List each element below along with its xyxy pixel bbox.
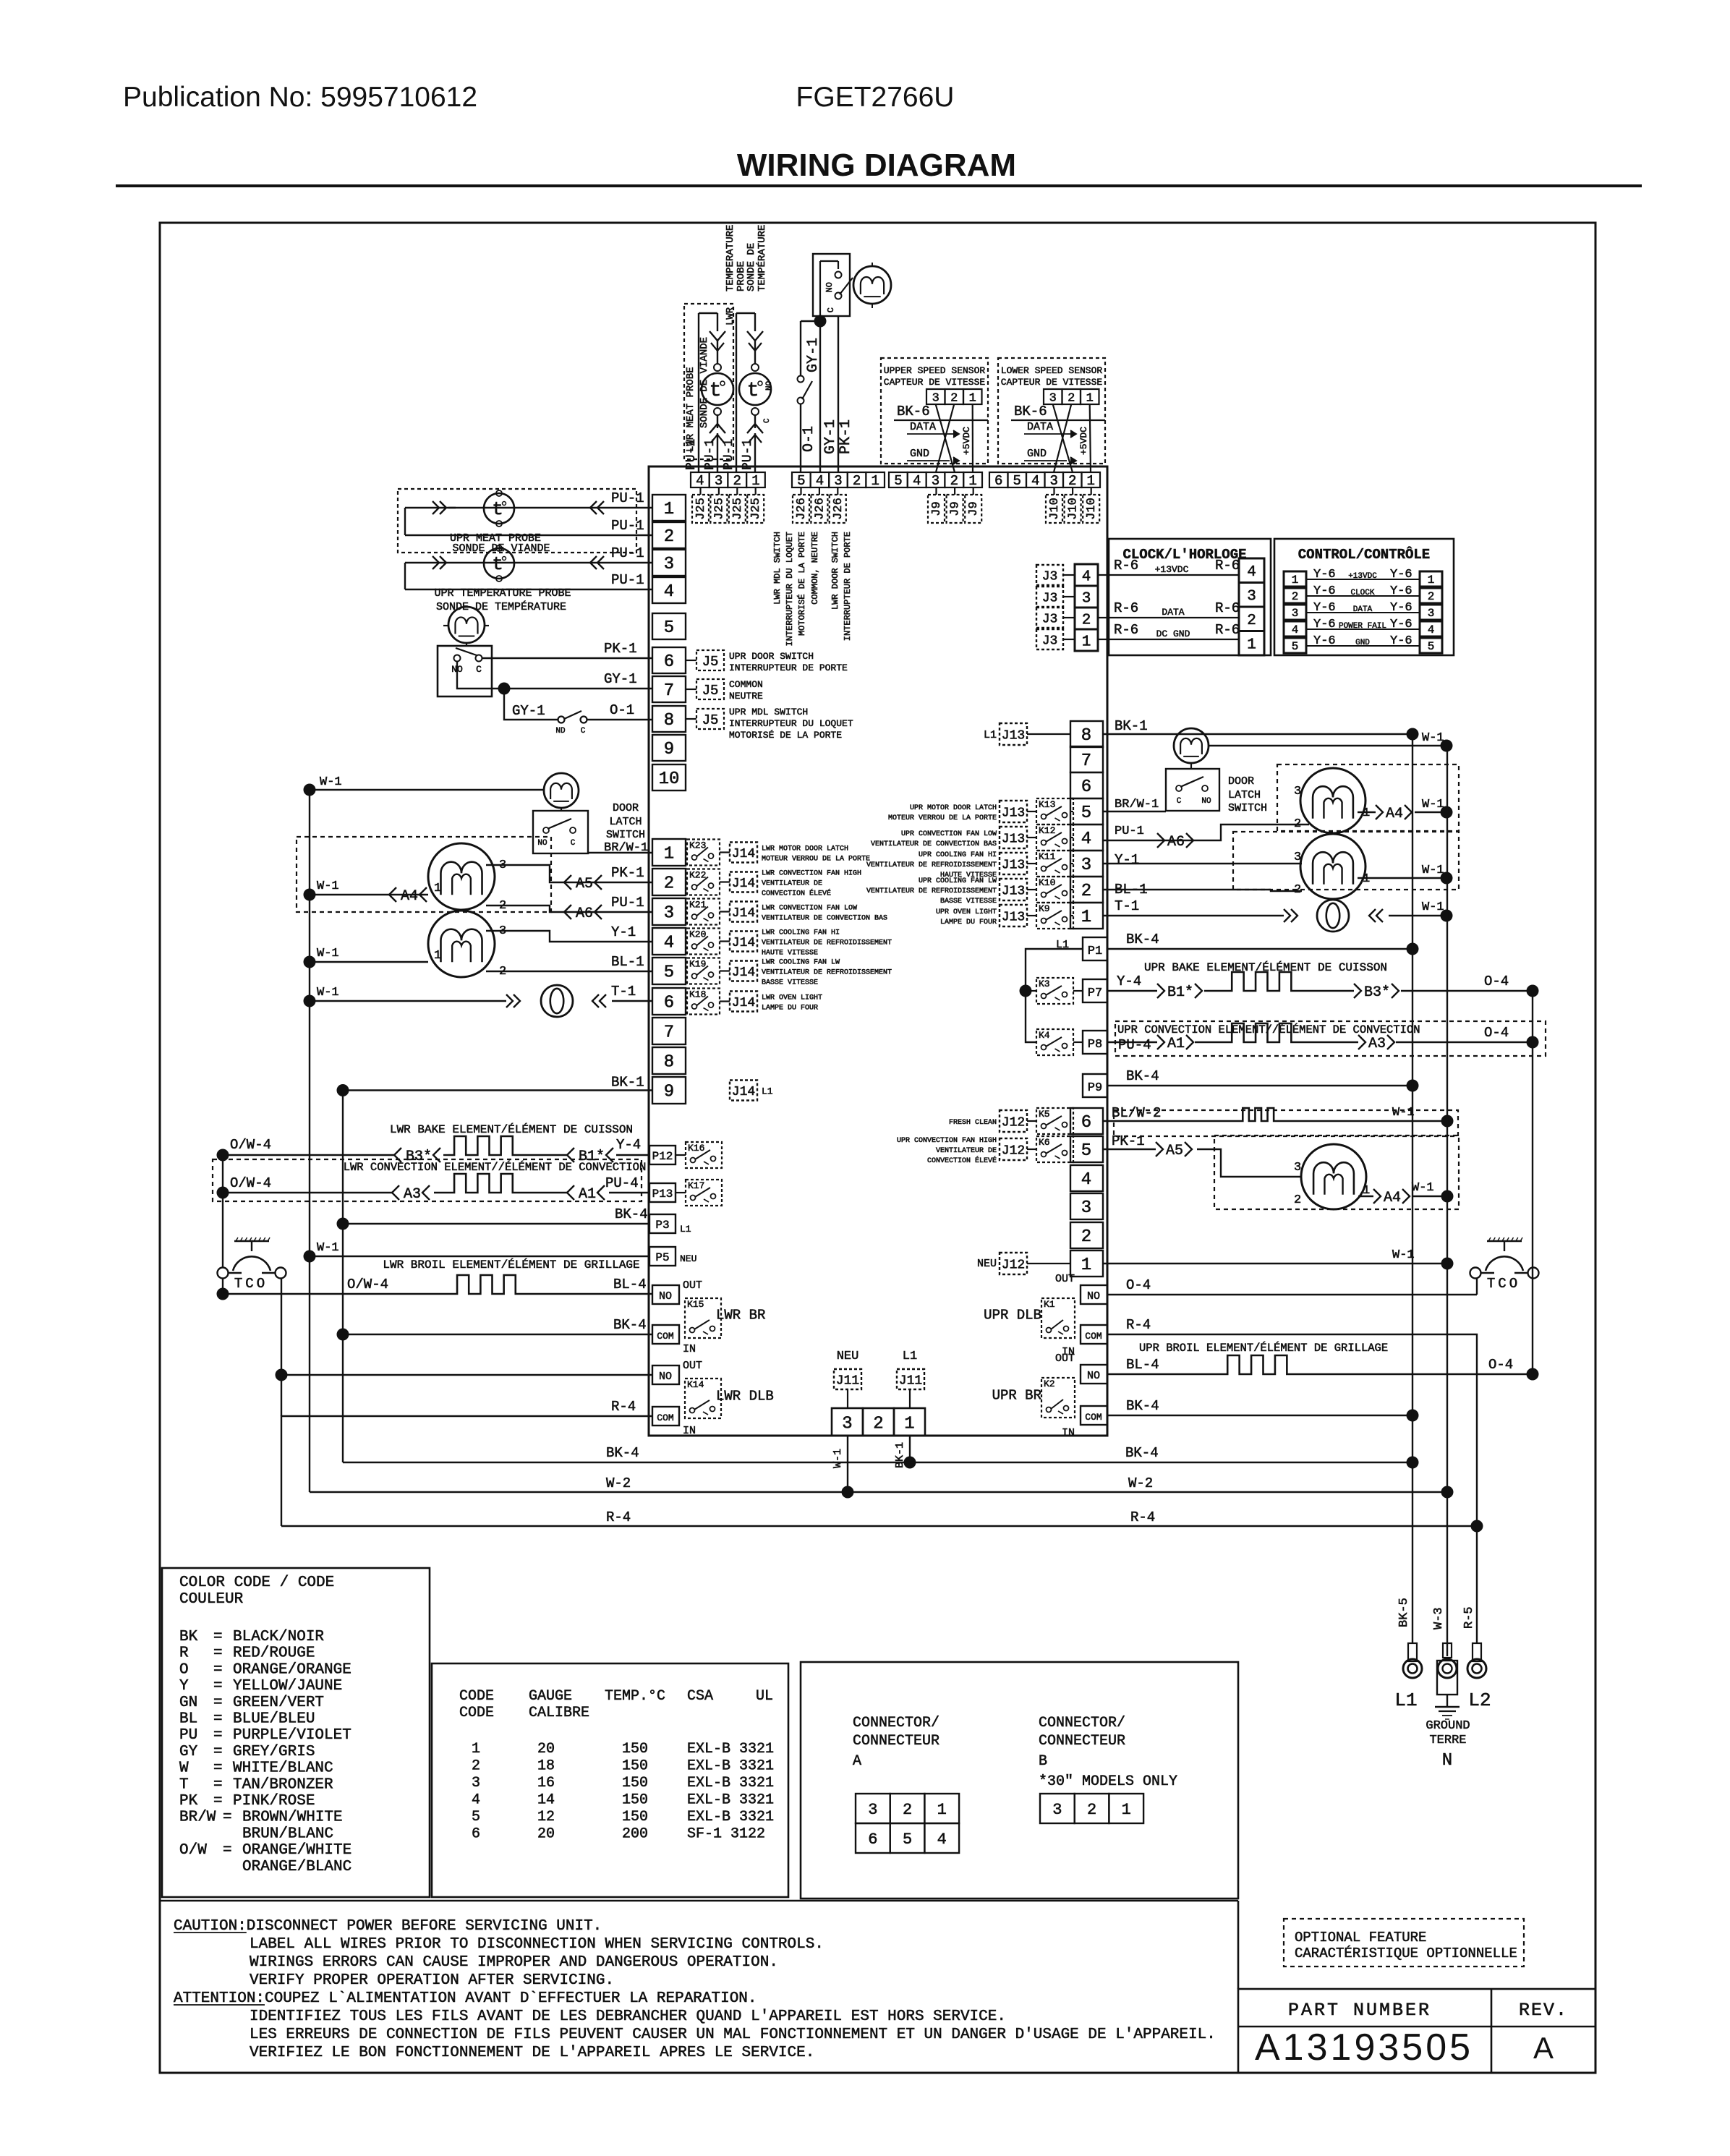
svg-text:BK-4: BK-4 [613,1317,647,1333]
svg-text:Y-6: Y-6 [1313,601,1336,615]
svg-text:J11: J11 [836,1373,859,1388]
svg-text:J13: J13 [1002,832,1025,846]
svg-text:J10: J10 [1085,498,1099,520]
svg-text:B1*: B1* [1167,984,1193,1001]
svg-text:HAUTE VITESSE: HAUTE VITESSE [762,950,818,958]
svg-text:WHITE/BLANC: WHITE/BLANC [233,1760,333,1777]
svg-text:A6: A6 [1167,834,1185,851]
svg-text:1: 1 [1428,574,1435,587]
svg-text:UPR BROIL ELEMENT/ÉLÉMENT DE G: UPR BROIL ELEMENT/ÉLÉMENT DE GRILLAGE [1139,1342,1388,1355]
svg-text:1: 1 [1082,634,1091,650]
svg-text:O-4: O-4 [1484,1025,1509,1041]
svg-text:UPR TEMPERATURE PROBE: UPR TEMPERATURE PROBE [434,587,571,600]
svg-text:NO: NO [824,282,835,292]
svg-text:BR/W: BR/W [179,1810,216,1826]
svg-text:COULEUR: COULEUR [179,1591,244,1608]
svg-text:3: 3 [932,391,939,405]
svg-text:T-1: T-1 [1115,898,1139,914]
svg-text:ORANGE/BLANC: ORANGE/BLANC [242,1859,351,1875]
svg-text:PK-1: PK-1 [1112,1133,1145,1149]
svg-text:BK-6: BK-6 [1014,404,1047,419]
svg-text:R-4: R-4 [1126,1317,1151,1333]
svg-text:IN: IN [683,1343,696,1355]
svg-text:2: 2 [1081,1227,1091,1247]
svg-text:2: 2 [499,899,506,913]
svg-text:VENTILATEUR DE: VENTILATEUR DE [762,880,822,888]
svg-text:A5: A5 [576,876,593,892]
svg-text:CONVECTION ÉLEVÉ: CONVECTION ÉLEVÉ [927,1155,997,1165]
svg-text:W-1: W-1 [317,947,339,960]
svg-text:BLUE/BLEU: BLUE/BLEU [233,1711,315,1728]
svg-text:3: 3 [664,555,674,574]
svg-text:1: 1 [664,845,674,864]
svg-text:P3: P3 [655,1219,669,1232]
svg-text:J5: J5 [702,683,719,699]
svg-text:BROWN/WHITE: BROWN/WHITE [242,1810,343,1826]
svg-text:LABEL ALL WIRES PRIOR TO DISCO: LABEL ALL WIRES PRIOR TO DISCONNECTION W… [250,1936,824,1953]
svg-text:6: 6 [664,994,674,1013]
svg-text:2: 2 [950,391,958,405]
svg-text:P1: P1 [1088,945,1102,958]
svg-text:LAMPE DU FOUR: LAMPE DU FOUR [762,1005,818,1013]
svg-text:4: 4 [937,1831,947,1849]
svg-text:J9: J9 [949,501,963,516]
svg-text:6: 6 [868,1831,877,1849]
svg-text:R-6: R-6 [1114,600,1138,616]
svg-text:5: 5 [664,963,674,983]
svg-text:BRUN/BLANC: BRUN/BLANC [242,1825,333,1842]
svg-text:EXL-B 3321: EXL-B 3321 [687,1741,774,1757]
svg-text:NO: NO [1087,1290,1100,1303]
svg-text:NO: NO [659,1290,672,1303]
svg-text:K20: K20 [689,929,706,940]
svg-text:Y-6: Y-6 [1390,634,1412,648]
svg-text:UPR DOOR SWITCH: UPR DOOR SWITCH [729,651,814,662]
svg-text:PU-1: PU-1 [703,439,717,470]
svg-text:=: = [213,1711,223,1728]
svg-text:Y-1: Y-1 [1115,852,1139,868]
svg-text:BK-1: BK-1 [894,1442,906,1468]
svg-text:5: 5 [797,473,805,489]
svg-text:=: = [213,1661,223,1678]
svg-text:J26: J26 [795,498,809,520]
svg-text:P9: P9 [1088,1081,1102,1095]
svg-text:K21: K21 [689,900,707,911]
svg-text:+5VDC: +5VDC [1078,427,1089,455]
svg-text:5: 5 [903,1831,912,1849]
svg-text:TAN/BRONZER: TAN/BRONZER [233,1776,333,1793]
svg-text:DOOR: DOOR [1228,775,1254,788]
svg-text:COM: COM [1085,1412,1102,1423]
svg-text:SWITCH: SWITCH [1228,802,1267,814]
svg-text:R-6: R-6 [1215,622,1240,638]
svg-text:1: 1 [434,882,441,895]
svg-text:2: 2 [733,473,741,489]
svg-text:EXL-B 3321: EXL-B 3321 [687,1758,774,1775]
svg-text:J5: J5 [702,712,719,728]
svg-text:2: 2 [853,473,861,489]
svg-text:PU-1: PU-1 [611,490,644,506]
svg-text:DISCONNECT POWER BEFORE SERVIC: DISCONNECT POWER BEFORE SERVICING UNIT. [247,1918,602,1935]
svg-text:1: 1 [1292,574,1299,587]
svg-text:1: 1 [1363,872,1370,886]
svg-text:UPR CONVECTION FAN HIGH: UPR CONVECTION FAN HIGH [897,1137,997,1145]
svg-text:J9: J9 [930,501,944,516]
svg-text:C: C [571,839,576,848]
svg-text:14: 14 [537,1792,555,1809]
svg-text:J25: J25 [749,498,763,520]
svg-text:J14: J14 [732,906,755,921]
svg-text:OPTIONAL FEATURE: OPTIONAL FEATURE [1295,1930,1426,1946]
svg-text:+13VDC: +13VDC [1155,564,1189,575]
svg-text:BR/W-1: BR/W-1 [1115,798,1159,811]
svg-text:J11: J11 [899,1373,922,1388]
svg-text:GND: GND [910,448,929,460]
svg-text:=: = [213,1760,223,1777]
svg-text:8: 8 [1081,726,1091,746]
svg-text:3: 3 [1050,473,1058,489]
svg-text:2: 2 [1087,1801,1096,1819]
svg-text:J14: J14 [732,877,755,891]
svg-text:SONDE DE: SONDE DE [746,243,757,291]
svg-text:1: 1 [1086,391,1094,405]
svg-text:BASSE VITESSE: BASSE VITESSE [762,979,818,987]
svg-text:J12: J12 [1002,1115,1025,1130]
svg-text:A3: A3 [1368,1036,1386,1052]
svg-text:R-6: R-6 [1114,622,1138,638]
svg-text:LWR MDL SWITCH: LWR MDL SWITCH [772,532,783,605]
svg-text:TEMPÉRATURE: TEMPÉRATURE [755,225,768,291]
svg-text:R-6: R-6 [1215,558,1240,574]
svg-text:GAUGE: GAUGE [529,1688,572,1705]
svg-text:2: 2 [1068,391,1075,405]
svg-text:PK-1: PK-1 [611,865,644,881]
svg-text:COM: COM [657,1413,673,1423]
svg-text:T-1: T-1 [611,984,636,1000]
svg-text:OUT: OUT [683,1279,702,1292]
svg-text:B3*: B3* [1364,984,1390,1001]
svg-text:LWR CONVECTION FAN HIGH: LWR CONVECTION FAN HIGH [762,870,861,878]
svg-text:W-2: W-2 [1128,1475,1153,1491]
svg-text:3: 3 [472,1775,480,1791]
svg-text:NO: NO [659,1371,672,1383]
svg-text:A: A [853,1753,861,1770]
svg-text:BK-4: BK-4 [1126,1398,1159,1414]
svg-text:Y-6: Y-6 [1390,618,1412,631]
svg-text:GY-1: GY-1 [822,419,839,454]
svg-text:C: C [1177,797,1182,806]
svg-text:J25: J25 [712,498,726,520]
svg-text:9: 9 [664,740,674,759]
svg-text:NO: NO [537,839,547,848]
svg-text:GND: GND [1355,639,1370,647]
svg-text:R-4: R-4 [1130,1509,1155,1525]
svg-text:O/W: O/W [179,1842,207,1859]
svg-text:LATCH: LATCH [609,816,642,828]
svg-text:WIRING DIAGRAM: WIRING DIAGRAM [737,148,1016,183]
svg-text:K17: K17 [688,1180,704,1191]
svg-text:PU: PU [179,1727,197,1744]
svg-text:O/W-4: O/W-4 [230,1175,271,1191]
svg-text:DOOR: DOOR [613,802,639,814]
svg-text:ND: ND [555,727,566,736]
svg-text:4: 4 [1082,568,1091,585]
svg-text:1: 1 [1363,806,1370,820]
svg-text:UL: UL [756,1688,773,1705]
svg-text:NEU: NEU [680,1253,696,1264]
svg-text:GY-1: GY-1 [805,338,822,372]
svg-text:3: 3 [1294,785,1301,798]
svg-text:UPR COOLING FAN LW: UPR COOLING FAN LW [919,877,997,885]
svg-text:W-3: W-3 [1432,1607,1446,1629]
svg-text:C: C [763,418,772,423]
svg-text:J14: J14 [732,1085,755,1099]
svg-text:IN: IN [683,1425,696,1437]
svg-text:8: 8 [664,711,674,730]
svg-text:6: 6 [1081,1113,1091,1133]
svg-text:P13: P13 [652,1188,673,1201]
svg-text:5: 5 [1081,1141,1091,1161]
svg-text:R-5: R-5 [1462,1606,1476,1629]
svg-text:4: 4 [664,934,674,953]
svg-text:SWITCH: SWITCH [606,829,645,841]
svg-text:5: 5 [664,618,674,638]
svg-text:DATA: DATA [910,421,936,433]
svg-text:K3: K3 [1039,979,1050,989]
svg-text:3: 3 [1292,607,1299,620]
svg-text:4: 4 [1428,623,1435,636]
svg-text:GY-1: GY-1 [604,671,637,687]
svg-text:=: = [223,1842,232,1859]
svg-text:CLOCK: CLOCK [1350,589,1374,597]
svg-text:4: 4 [1031,473,1039,489]
svg-text:PU-1: PU-1 [722,439,736,470]
svg-text:ORANGE/ORANGE: ORANGE/ORANGE [233,1661,351,1678]
svg-text:GY-1: GY-1 [512,703,545,719]
svg-text:DC GND: DC GND [1156,629,1190,639]
svg-text:3: 3 [1428,607,1435,620]
svg-text:W-1: W-1 [320,775,342,789]
svg-text:BK-1: BK-1 [1115,718,1148,734]
svg-text:LWR BR: LWR BR [716,1308,765,1324]
svg-text:UPR COOLING FAN HI: UPR COOLING FAN HI [919,851,997,859]
svg-text:=: = [213,1645,223,1662]
svg-text:LWR CONVECTION FAN LOW: LWR CONVECTION FAN LOW [762,905,857,913]
svg-text:UPPER SPEED SENSOR: UPPER SPEED SENSOR [884,365,986,376]
svg-text:2: 2 [1081,882,1091,901]
svg-text:3: 3 [1082,590,1091,607]
svg-text:OUT: OUT [1055,1352,1075,1365]
svg-text:200: 200 [622,1826,648,1843]
svg-text:K22: K22 [689,870,706,881]
svg-text:K10: K10 [1039,877,1055,888]
svg-text:IDENTIFIEZ TOUS LES FILS AVANT: IDENTIFIEZ TOUS LES FILS AVANT DE LES DE… [250,2008,1006,2025]
svg-text:COUPEZ L`ALIMENTATION AVANT D`: COUPEZ L`ALIMENTATION AVANT D`EFFECTUER … [265,1990,757,2007]
svg-text:+5VDC: +5VDC [961,427,972,455]
svg-text:GND: GND [1027,448,1047,460]
svg-text:O-4: O-4 [1126,1277,1151,1293]
svg-text:J14: J14 [732,996,755,1010]
svg-text:P8: P8 [1088,1038,1102,1052]
svg-text:BK-4: BK-4 [615,1206,648,1222]
svg-text:=: = [213,1695,223,1711]
svg-text:3: 3 [1081,856,1091,875]
svg-text:A: A [1533,2031,1554,2065]
svg-text:CODE: CODE [459,1688,494,1705]
svg-text:Y-6: Y-6 [1390,584,1412,598]
svg-text:VENTILATEUR DE CONVECTION BAS: VENTILATEUR DE CONVECTION BAS [871,840,997,848]
svg-text:t: t [492,498,503,520]
svg-text:PU-1: PU-1 [611,545,644,561]
svg-text:1: 1 [969,391,976,405]
svg-text:Y-6: Y-6 [1313,634,1336,648]
svg-text:t: t [492,553,503,575]
svg-text:3: 3 [499,858,506,872]
svg-text:COLOR CODE / CODE: COLOR CODE / CODE [179,1575,334,1591]
svg-text:A3: A3 [404,1186,421,1203]
svg-text:W-1: W-1 [317,1241,339,1255]
svg-text:K23: K23 [689,840,706,851]
svg-text:PU-1: PU-1 [611,572,644,588]
svg-text:8: 8 [664,1053,674,1073]
svg-text:2: 2 [950,473,958,489]
svg-text:150: 150 [622,1792,648,1809]
svg-text:W-1: W-1 [317,879,339,893]
svg-text:COMMON, NEUTRE: COMMON, NEUTRE [810,532,820,605]
svg-text:LWR COOLING FAN LW: LWR COOLING FAN LW [762,959,840,967]
svg-text:PU-4: PU-4 [605,1175,639,1191]
svg-text:UPR BR: UPR BR [992,1388,1041,1404]
svg-text:150: 150 [622,1809,648,1825]
svg-text:L2: L2 [1468,1690,1491,1711]
svg-text:J13: J13 [1002,910,1025,924]
svg-text:1: 1 [937,1801,947,1819]
svg-text:3: 3 [1049,391,1057,405]
svg-text:PART NUMBER: PART NUMBER [1288,2000,1431,2021]
svg-text:A4: A4 [1384,1190,1401,1206]
svg-text:4: 4 [696,473,704,489]
svg-text:MOTEUR VERROU DE LA PORTE: MOTEUR VERROU DE LA PORTE [762,856,870,864]
svg-text:INTERRUPTEUR DE PORTE: INTERRUPTEUR DE PORTE [729,662,848,673]
svg-text:GROUND: GROUND [1426,1719,1470,1733]
svg-text:t: t [710,380,722,402]
svg-text:2: 2 [1428,590,1435,603]
svg-text:Y-1: Y-1 [611,924,636,940]
svg-text:5: 5 [1081,804,1091,823]
svg-text:O-4: O-4 [1488,1357,1513,1373]
svg-text:BK-4: BK-4 [1125,1445,1159,1461]
svg-text:R-6: R-6 [1215,600,1240,616]
svg-text:W-1: W-1 [1422,864,1444,877]
svg-text:NEUTRE: NEUTRE [729,691,763,702]
svg-text:BL/W-2: BL/W-2 [1112,1105,1161,1121]
svg-text:=: = [213,1727,223,1744]
svg-text:UPR MDL SWITCH: UPR MDL SWITCH [729,707,808,717]
svg-text:4: 4 [1292,623,1299,636]
svg-text:PU-1: PU-1 [611,895,644,911]
svg-text:W-1: W-1 [317,986,339,1000]
svg-text:L1: L1 [762,1086,773,1097]
svg-text:UPR CONVECTION ELEMENT//ÉLÉMEN: UPR CONVECTION ELEMENT//ÉLÉMENT DE CONVE… [1117,1023,1420,1036]
svg-text:INTERRUPTEUR DU LOQUET: INTERRUPTEUR DU LOQUET [729,718,853,729]
svg-text:W: W [179,1760,189,1777]
svg-text:20: 20 [537,1826,555,1843]
svg-text:CONNECTEUR: CONNECTEUR [853,1733,939,1750]
svg-text:VENTILATEUR DE: VENTILATEUR DE [936,1147,997,1155]
svg-text:CAPTEUR DE VITESSE: CAPTEUR DE VITESSE [884,377,986,388]
svg-text:BK-5: BK-5 [1397,1598,1411,1627]
svg-text:Y-6: Y-6 [1313,584,1336,598]
svg-text:3: 3 [1294,851,1301,864]
svg-text:W-1: W-1 [1392,1106,1415,1120]
svg-text:BK: BK [179,1629,198,1645]
svg-text:DATA: DATA [1353,605,1373,614]
svg-text:EXL-B 3321: EXL-B 3321 [687,1809,774,1825]
svg-text:J26: J26 [813,498,827,520]
svg-text:PK-1: PK-1 [838,419,854,454]
svg-text:GREEN/VERT: GREEN/VERT [233,1695,324,1711]
svg-text:LWR CONVECTION ELEMENT//ÉLÉMEN: LWR CONVECTION ELEMENT//ÉLÉMENT DE CONVE… [344,1161,647,1174]
svg-text:PU-1: PU-1 [741,439,755,470]
svg-text:LATCH: LATCH [1228,789,1261,801]
svg-text:O-1: O-1 [610,702,634,718]
svg-text:VENTILATEUR DE REFROIDISSEMENT: VENTILATEUR DE REFROIDISSEMENT [762,969,892,977]
svg-text:18: 18 [537,1758,555,1775]
svg-text:J14: J14 [732,966,755,980]
svg-text:VERIFIEZ LE BON FONCTIONNEMENT: VERIFIEZ LE BON FONCTIONNEMENT DE L'APPA… [250,2045,814,2061]
svg-text:PU-1: PU-1 [1115,825,1144,838]
svg-text:EXL-B 3321: EXL-B 3321 [687,1775,774,1791]
svg-text:BL-4: BL-4 [613,1277,647,1292]
svg-text:A1: A1 [1167,1036,1185,1052]
svg-text:P12: P12 [652,1150,673,1163]
svg-text:C: C [581,727,586,736]
svg-text:R-4: R-4 [606,1509,631,1525]
svg-text:CAPTEUR DE VITESSE: CAPTEUR DE VITESSE [1001,377,1103,388]
svg-text:O/W-4: O/W-4 [230,1137,271,1153]
svg-text:J26: J26 [832,498,845,520]
svg-text:1: 1 [904,1414,914,1433]
svg-text:4: 4 [816,473,824,489]
svg-text:3: 3 [715,473,723,489]
svg-text:2: 2 [1294,1193,1301,1207]
svg-text:2: 2 [664,527,674,547]
svg-text:LAMPE DU FOUR: LAMPE DU FOUR [940,919,997,926]
svg-text:P7: P7 [1088,987,1102,1000]
svg-text:7: 7 [664,681,674,701]
svg-text:K9: K9 [1039,903,1050,914]
svg-text:R-4: R-4 [611,1399,636,1415]
svg-text:LWR DOOR SWITCH: LWR DOOR SWITCH [830,532,840,610]
svg-text:J13: J13 [1002,884,1025,898]
svg-text:L1: L1 [1394,1690,1417,1711]
svg-text:LWR BAKE ELEMENT/ÉLÉMENT DE CU: LWR BAKE ELEMENT/ÉLÉMENT DE CUISSON [390,1122,633,1136]
svg-text:Publication No: 5995710612: Publication No: 5995710612 [123,82,477,113]
svg-text:3: 3 [842,1414,852,1433]
svg-text:MOTEUR VERROU DE LA PORTE: MOTEUR VERROU DE LA PORTE [888,814,997,822]
svg-text:J12: J12 [1002,1143,1025,1158]
svg-text:CARACTÉRISTIQUE OPTIONNELLE: CARACTÉRISTIQUE OPTIONNELLE [1295,1946,1517,1961]
svg-text:LWR COOLING FAN HI: LWR COOLING FAN HI [762,929,840,937]
svg-text:=: = [213,1678,223,1695]
svg-text:3: 3 [834,473,842,489]
svg-text:CALIBRE: CALIBRE [529,1705,589,1721]
svg-text:A1: A1 [579,1186,596,1203]
svg-text:4: 4 [472,1792,480,1809]
svg-text:A4: A4 [401,888,418,905]
svg-text:J3: J3 [1042,612,1058,626]
svg-text:BK-4: BK-4 [1126,1068,1159,1084]
